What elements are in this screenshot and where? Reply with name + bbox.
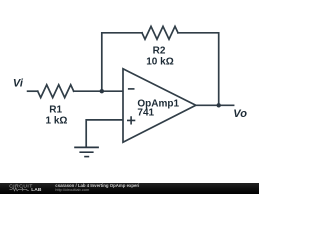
wire input from Vi bbox=[28, 90, 38, 92]
ground bbox=[74, 147, 99, 156]
wire R1 to op-amp inverting input bbox=[74, 90, 123, 92]
resistor R1 bbox=[38, 85, 74, 98]
op-amp minus pin symbol bbox=[128, 88, 135, 90]
svg-text:10 kΩ: 10 kΩ bbox=[146, 56, 173, 67]
svg-text:R1: R1 bbox=[49, 105, 62, 116]
svg-text:Vi: Vi bbox=[13, 78, 24, 90]
svg-text:http://circuitlab.com: http://circuitlab.com bbox=[55, 187, 90, 192]
wire feedback left vertical bbox=[102, 33, 142, 91]
resistor R2 bbox=[142, 26, 178, 39]
node junction at output bbox=[217, 103, 221, 107]
footer logo waveform bbox=[10, 188, 29, 191]
svg-text:1 kΩ: 1 kΩ bbox=[46, 116, 68, 127]
svg-text:741: 741 bbox=[137, 108, 154, 119]
wire output bbox=[196, 104, 234, 106]
wire feedback right vertical bbox=[178, 33, 219, 106]
svg-text:LAB: LAB bbox=[31, 187, 42, 193]
node junction at inverting input bbox=[100, 89, 104, 93]
svg-text:Vo: Vo bbox=[233, 108, 247, 120]
op-amp plus pin symbol bbox=[127, 116, 135, 124]
op-amp U1 triangle bbox=[123, 69, 196, 142]
wire non-inverting input to ground bbox=[86, 120, 123, 147]
svg-text:R2: R2 bbox=[153, 45, 166, 56]
